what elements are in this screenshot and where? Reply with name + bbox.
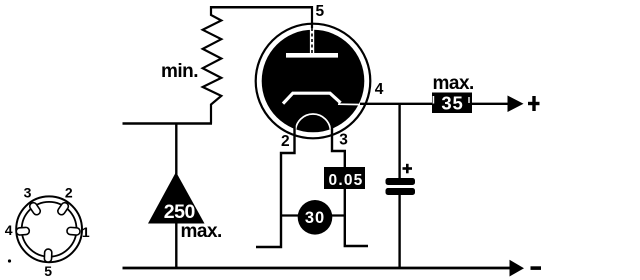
svg-text:0.05: 0.05 — [329, 172, 364, 189]
socket pin 3 — [28, 201, 41, 216]
socket pin label 2 — [65, 185, 73, 201]
pin label 5 — [316, 3, 325, 20]
svg-text:3: 3 — [339, 132, 348, 149]
pin label 4 — [375, 81, 384, 98]
arrow + terminal — [508, 96, 540, 113]
socket pin 4 — [16, 227, 29, 235]
svg-text:5: 5 — [44, 263, 52, 279]
voltage marker triangle 250 — [148, 172, 205, 224]
svg-text:1: 1 — [82, 224, 90, 240]
current box 35 — [432, 93, 472, 114]
svg-text:4: 4 — [375, 81, 384, 98]
svg-text:35: 35 — [441, 93, 463, 114]
tube plate (anode bar) — [286, 53, 338, 58]
socket pin label 3 — [24, 185, 32, 201]
socket pin 2 — [56, 201, 69, 216]
label max. (below triangle) — [181, 221, 222, 242]
svg-text:250: 250 — [164, 201, 196, 223]
wire: vertical drop to bottom rail through triangle — [175, 123, 177, 268]
socket pin 1 — [67, 227, 81, 235]
socket pinout: shell — [16, 196, 82, 262]
wire: output from pin 4 — [360, 103, 432, 105]
capacitor C1 electrolytic — [386, 164, 416, 195]
svg-text:30: 30 — [305, 209, 325, 227]
arrow - terminal — [510, 260, 542, 277]
socket pin label 1 — [82, 224, 90, 240]
svg-text:max.: max. — [433, 73, 474, 94]
wire: box to plus arrow — [472, 103, 509, 105]
svg-text:3: 3 — [24, 185, 32, 201]
wire: link through 30 — [281, 214, 345, 216]
socket pin label 5 — [44, 263, 52, 279]
capacitor 0.05 box — [324, 167, 365, 189]
socket pin label 4 — [5, 222, 13, 238]
pin label 2 — [281, 133, 290, 150]
pin label 3 — [339, 132, 348, 149]
svg-text:4: 4 — [5, 222, 13, 238]
component 30 (circle) — [298, 200, 333, 235]
wire: pin 3 drop with stub — [332, 124, 368, 247]
socket pin 5 — [44, 249, 52, 262]
svg-text:min.: min. — [161, 61, 198, 82]
svg-text:2: 2 — [65, 185, 73, 201]
wire: top bus from resistor to tube pin 5 — [210, 6, 313, 9]
resistor R1 (min.) — [203, 6, 222, 124]
tube exhaust tip circle — [296, 114, 331, 149]
label min. — [161, 61, 198, 82]
svg-text:max.: max. — [181, 221, 222, 242]
svg-text:2: 2 — [281, 133, 290, 150]
wire: horizontal from resistor bottom, dead-ends left — [123, 122, 213, 125]
tube V1 envelope — [256, 24, 371, 139]
tube filament/cathode — [283, 93, 363, 104]
wire: pin 2 drop with stub — [256, 124, 295, 247]
bottom rail — [123, 267, 511, 270]
wire: capacitor to bottom rail — [398, 195, 400, 269]
label max. (above 35) — [433, 73, 474, 94]
wire: junction down to capacitor — [398, 104, 400, 179]
svg-text:5: 5 — [316, 3, 325, 20]
stray dot — [8, 259, 11, 262]
tube pin 5 lead — [310, 6, 314, 54]
